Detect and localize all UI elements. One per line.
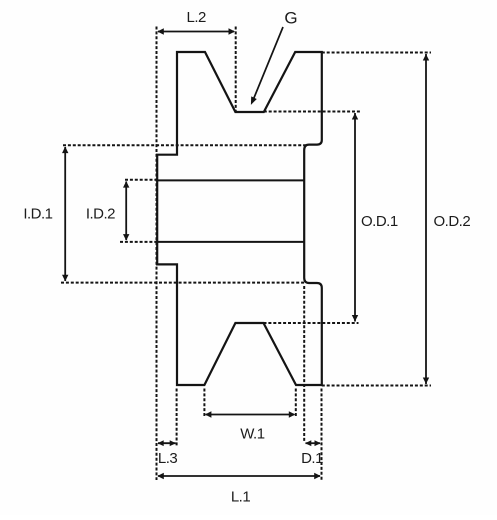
bore top line xyxy=(157,179,304,181)
bore bottom line xyxy=(157,241,304,243)
label O.D.2 xyxy=(434,213,471,230)
G leader arrow xyxy=(251,27,283,105)
svg-text:L.2: L.2 xyxy=(187,9,207,26)
svg-text:I.D.1: I.D.1 xyxy=(23,205,52,222)
label L.2 xyxy=(187,9,207,26)
dimension O.D.2 xyxy=(322,53,431,386)
label L.3 xyxy=(158,450,178,467)
dimension L.3 xyxy=(158,389,177,448)
label I.D.2 xyxy=(86,205,115,222)
svg-text:L.1: L.1 xyxy=(231,489,251,506)
label L.1 xyxy=(231,489,251,506)
svg-text:O.D.1: O.D.1 xyxy=(361,213,398,230)
label I.D.1 xyxy=(23,205,52,222)
svg-text:I.D.2: I.D.2 xyxy=(86,205,115,222)
svg-text:O.D.2: O.D.2 xyxy=(434,213,471,230)
dimension I.D.2 xyxy=(120,180,157,242)
label G xyxy=(284,9,297,28)
label W.1 xyxy=(240,426,264,443)
dimension W.1 xyxy=(204,389,295,418)
dimension L.1 xyxy=(157,473,320,479)
dimension D.1 xyxy=(304,286,321,480)
svg-text:G: G xyxy=(284,9,297,28)
svg-text:D.1: D.1 xyxy=(301,450,323,467)
pulley outline xyxy=(157,52,322,385)
label D.1 xyxy=(301,450,323,467)
svg-text:L.3: L.3 xyxy=(158,450,178,467)
svg-text:W.1: W.1 xyxy=(240,426,264,443)
dimension I.D.1 xyxy=(61,145,307,282)
dimension L.2 xyxy=(157,27,236,481)
dimension O.D.1 xyxy=(264,112,362,324)
label O.D.1 xyxy=(361,213,398,230)
